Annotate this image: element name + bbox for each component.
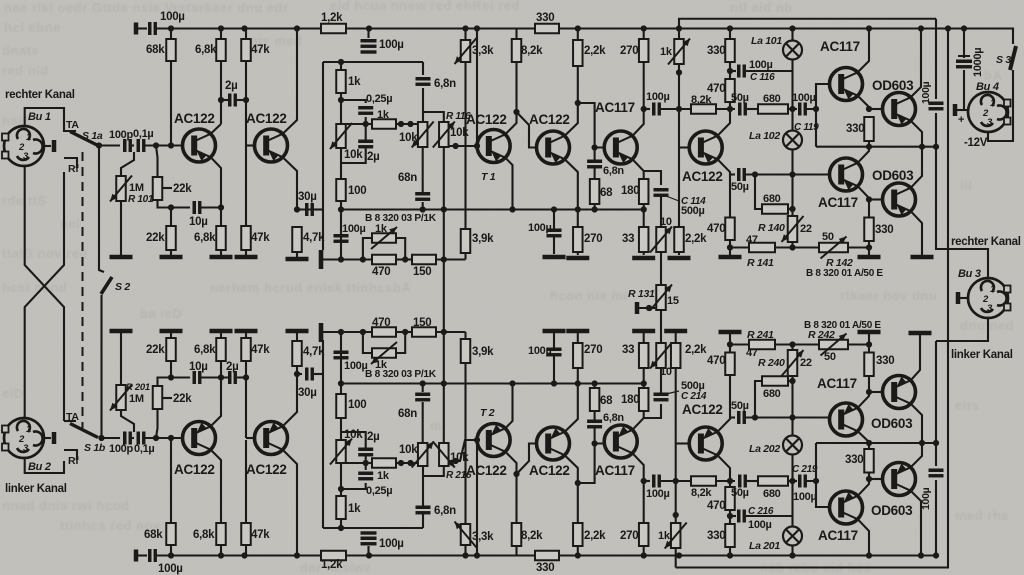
wire bbox=[245, 250, 247, 255]
wire bbox=[340, 148, 342, 179]
resistor 470 b bbox=[725, 218, 735, 241]
wire bbox=[340, 463, 342, 496]
resistor 470 a bbox=[725, 79, 735, 102]
wire bbox=[660, 310, 662, 343]
wire bbox=[340, 418, 342, 440]
svg-text:1k: 1k bbox=[660, 46, 673, 58]
ground bbox=[664, 329, 687, 334]
wire bbox=[553, 237, 555, 254]
wire bbox=[716, 480, 735, 482]
wire bbox=[594, 409, 596, 420]
junction dot bbox=[789, 171, 795, 177]
svg-text:AC122: AC122 bbox=[174, 111, 215, 126]
svg-text:hcon nie mi: hcon nie mi bbox=[550, 288, 628, 303]
svg-text:100µ: 100µ bbox=[528, 345, 552, 357]
svg-text:50µ: 50µ bbox=[731, 400, 749, 412]
junction dots top bus bbox=[168, 25, 967, 31]
wire bbox=[423, 466, 444, 476]
potentiometer 10k bass b bbox=[330, 439, 352, 465]
transistor AC117 driver bbox=[604, 131, 637, 164]
svg-text:470: 470 bbox=[707, 500, 725, 512]
wire base bbox=[246, 144, 254, 146]
wire bbox=[815, 109, 817, 147]
transistor AC117 output4 bbox=[830, 491, 863, 524]
wire T1 emitter bbox=[505, 158, 512, 210]
potentiometer R 140 22 bbox=[782, 216, 804, 242]
wire e bbox=[858, 96, 869, 109]
svg-text:10k: 10k bbox=[344, 429, 363, 441]
wire bbox=[793, 246, 820, 248]
capacitor 6,8n bbox=[416, 79, 431, 85]
wire bbox=[121, 410, 134, 432]
wire bbox=[464, 29, 466, 41]
wire bbox=[341, 432, 366, 449]
svg-text:C 219: C 219 bbox=[792, 464, 818, 475]
junction dot bbox=[752, 414, 758, 420]
wire bbox=[314, 373, 323, 375]
wire bbox=[136, 27, 147, 29]
svg-text:med rhe: med rhe bbox=[955, 508, 1009, 523]
svg-text:3,9k: 3,9k bbox=[472, 346, 494, 358]
junction dot bbox=[727, 513, 733, 519]
wire bbox=[957, 70, 964, 110]
junction dot bbox=[866, 244, 872, 250]
wire bbox=[145, 144, 182, 146]
svg-text:2µ: 2µ bbox=[226, 361, 238, 373]
transistor AC117 driver b bbox=[604, 425, 637, 458]
wire bbox=[791, 60, 793, 131]
svg-text:6,8n: 6,8n bbox=[434, 505, 456, 517]
wire bbox=[340, 62, 342, 70]
wire S2 upper bbox=[99, 146, 104, 273]
ground bbox=[235, 329, 258, 334]
wire bbox=[868, 443, 870, 449]
junction dot bbox=[338, 329, 447, 335]
wire bbox=[340, 201, 342, 260]
wire emitter row bbox=[444, 208, 644, 210]
resistor 330 a b bbox=[725, 524, 735, 547]
wire bbox=[958, 297, 968, 299]
wire bbox=[716, 108, 735, 110]
wire bbox=[577, 368, 579, 384]
wire bbox=[443, 147, 445, 210]
wire bbox=[746, 173, 830, 175]
wire label tie bbox=[163, 397, 172, 399]
svg-text:680: 680 bbox=[763, 193, 781, 205]
svg-text:eid hcua nnew red ehRei red: eid hcua nnew red ehRei red bbox=[330, 0, 520, 13]
socket Bu 3 bbox=[968, 278, 1011, 318]
wire c bbox=[911, 491, 921, 556]
wire bbox=[145, 437, 182, 439]
transistor AC122 stage5 bbox=[689, 131, 722, 164]
resistor 8,2k bbox=[512, 39, 522, 62]
resistor 680 b2 bbox=[762, 376, 788, 386]
resistor 330 bus b bbox=[535, 551, 559, 561]
resistor 22k d bbox=[166, 338, 176, 361]
svg-text:1: 1 bbox=[990, 98, 995, 109]
svg-text:100µ: 100µ bbox=[342, 223, 366, 235]
potentiometer 1k P bbox=[371, 227, 397, 249]
svg-text:La 202: La 202 bbox=[749, 443, 780, 455]
wire bbox=[637, 307, 656, 309]
junction dot bbox=[338, 256, 447, 262]
wire bbox=[245, 361, 247, 438]
resistor 6,8k d bbox=[216, 338, 226, 361]
capacitor 100µ coupling bbox=[654, 103, 660, 116]
wire bbox=[245, 440, 247, 523]
capacitor 100µ emitter bbox=[547, 230, 562, 236]
svg-text:180: 180 bbox=[621, 394, 639, 406]
junction dot bbox=[168, 204, 174, 210]
wire bbox=[791, 546, 793, 556]
svg-text:22: 22 bbox=[800, 223, 812, 235]
wire crossover a bbox=[25, 166, 64, 421]
svg-text:C 214: C 214 bbox=[681, 391, 707, 402]
wire bbox=[220, 462, 222, 523]
svg-text:1,2k: 1,2k bbox=[321, 559, 343, 571]
wire c5 bbox=[717, 110, 730, 136]
capacitor 10µ bottom bbox=[194, 371, 200, 384]
wire emitter tap b bbox=[644, 404, 661, 418]
svg-text:180: 180 bbox=[621, 185, 639, 197]
wire bbox=[314, 208, 323, 210]
wire emitter tap bbox=[644, 171, 661, 185]
wire bbox=[170, 250, 172, 255]
resistor 8,2k bottom bbox=[512, 523, 522, 546]
transistor AC122 stage2 top bbox=[255, 129, 288, 162]
ground bbox=[668, 256, 691, 261]
wire bbox=[577, 546, 579, 556]
wire e bbox=[911, 211, 922, 255]
svg-text:linker Kanal: linker Kanal bbox=[5, 483, 67, 495]
svg-text:Bu 1: Bu 1 bbox=[28, 111, 51, 123]
wire 50µ2b row bbox=[730, 416, 735, 418]
svg-text:50µ: 50µ bbox=[731, 181, 749, 193]
svg-text:15: 15 bbox=[667, 295, 679, 307]
wire bbox=[868, 473, 870, 480]
wire bbox=[220, 361, 222, 378]
wire bbox=[660, 252, 662, 285]
svg-text:3,3k: 3,3k bbox=[472, 45, 494, 57]
junction dot bbox=[575, 100, 598, 151]
svg-text:330: 330 bbox=[875, 224, 893, 236]
wire bbox=[788, 480, 797, 482]
wire 680b drop bbox=[755, 175, 762, 210]
wire e4 bbox=[565, 159, 578, 209]
resistor 330 bus bbox=[535, 24, 559, 34]
wire bbox=[643, 29, 645, 40]
junction dot bbox=[98, 435, 104, 441]
wire bbox=[791, 150, 793, 210]
resistor 2,2k bus bbox=[573, 40, 583, 66]
wire bbox=[807, 84, 830, 109]
wire TA contact b bbox=[64, 420, 76, 422]
svg-text:0,1µ: 0,1µ bbox=[134, 443, 154, 455]
ground bbox=[858, 255, 881, 260]
wire output col top bbox=[935, 19, 937, 99]
capacitor 100µ out top bbox=[929, 103, 944, 109]
capacitor 100µ input bottom bbox=[150, 549, 156, 562]
capacitor 100p bottom bbox=[125, 432, 131, 445]
svg-text:R 241: R 241 bbox=[747, 329, 774, 341]
svg-text:680: 680 bbox=[763, 93, 781, 105]
wire label tie bbox=[163, 187, 172, 189]
svg-text:1M: 1M bbox=[129, 182, 144, 194]
svg-text:10k: 10k bbox=[399, 444, 418, 456]
wire tone mid wire b bbox=[341, 382, 444, 384]
wire bbox=[594, 168, 596, 179]
wire bbox=[643, 333, 645, 343]
svg-text:330: 330 bbox=[876, 355, 894, 367]
junction dot bbox=[338, 206, 344, 212]
resistor 270 emitter b bbox=[573, 343, 583, 368]
wire e bbox=[858, 479, 869, 496]
junction dot bbox=[420, 206, 447, 212]
svg-text:AC117: AC117 bbox=[818, 195, 858, 210]
resistor 330 a bbox=[725, 39, 735, 62]
resistor 47 R241 bbox=[749, 340, 775, 350]
wire S3 feed bbox=[1007, 29, 1013, 45]
wire bbox=[729, 29, 731, 40]
capacitor 2µ bbox=[230, 94, 236, 107]
svg-text:eits: eits bbox=[955, 398, 979, 413]
svg-text:33: 33 bbox=[622, 233, 634, 245]
svg-text:6,8k: 6,8k bbox=[194, 344, 216, 356]
svg-text:1: 1 bbox=[26, 132, 31, 143]
junction dot bbox=[453, 437, 481, 464]
svg-text:8,2k: 8,2k bbox=[691, 94, 712, 106]
wire bbox=[221, 99, 228, 101]
svg-text:47: 47 bbox=[746, 347, 758, 359]
ground bbox=[911, 255, 934, 260]
resistor 180 b bbox=[639, 388, 649, 411]
junction dot bbox=[641, 478, 734, 484]
socket Bu 4 bbox=[968, 92, 1011, 132]
junction dot bbox=[789, 378, 795, 384]
svg-text:330: 330 bbox=[536, 562, 554, 574]
svg-text:100p: 100p bbox=[109, 129, 133, 141]
svg-text:47: 47 bbox=[746, 234, 758, 246]
wire bbox=[791, 455, 793, 527]
junction dot bbox=[646, 305, 652, 311]
capacitor 0,25µ bbox=[358, 108, 373, 114]
svg-text:470: 470 bbox=[372, 317, 390, 329]
svg-text:La 201: La 201 bbox=[749, 540, 780, 552]
junction dot bbox=[575, 440, 598, 486]
resistor 3,9k bottom bbox=[461, 339, 471, 363]
wire bbox=[464, 332, 466, 339]
svg-text:-12V: -12V bbox=[964, 137, 988, 149]
capacitor C114 500µ bbox=[654, 190, 669, 196]
terminal R131 wiper bbox=[635, 302, 640, 314]
wire bbox=[170, 545, 172, 556]
svg-text:10k: 10k bbox=[399, 132, 418, 144]
wire bbox=[775, 343, 793, 345]
svg-text:10k: 10k bbox=[344, 149, 363, 161]
potentiometer R 101 1M bbox=[110, 176, 132, 202]
wire TA loop bbox=[25, 108, 76, 131]
wire top supply bus bbox=[156, 27, 1007, 29]
wire 680b2 rise bbox=[755, 381, 762, 418]
junction dot bbox=[218, 97, 249, 103]
resistor 680 a b bbox=[758, 476, 788, 486]
svg-text:100µ: 100µ bbox=[379, 39, 404, 51]
wire loop bbox=[396, 238, 405, 260]
wire bbox=[791, 381, 793, 436]
svg-text:red nid: red nid bbox=[2, 63, 49, 78]
resistor 330 c bbox=[864, 218, 874, 242]
resistor 470 b2 bbox=[725, 353, 735, 376]
wire bbox=[422, 202, 424, 210]
svg-text:470: 470 bbox=[707, 355, 725, 367]
junction dot bbox=[398, 121, 414, 127]
svg-text:TA: TA bbox=[66, 119, 79, 131]
svg-text:6,8k: 6,8k bbox=[195, 44, 217, 56]
ground bbox=[858, 330, 881, 335]
potentiometer R 142 50 bbox=[819, 237, 848, 259]
svg-text:68k: 68k bbox=[146, 44, 165, 56]
ground bbox=[543, 255, 566, 260]
svg-text:6,8n: 6,8n bbox=[603, 412, 624, 424]
svg-text:100µ: 100µ bbox=[646, 91, 670, 103]
wire bbox=[791, 209, 793, 216]
resistor 6,8k bbox=[216, 39, 226, 61]
potentiometer 10 b bbox=[650, 343, 672, 369]
wire bbox=[963, 29, 965, 59]
wire c4 to base5 bbox=[578, 103, 604, 148]
resistor 2,2k bias b bbox=[671, 343, 681, 368]
svg-text:100µ: 100µ bbox=[792, 92, 816, 104]
svg-text:La 101: La 101 bbox=[751, 35, 782, 47]
wire bbox=[170, 440, 172, 523]
wire mid row bbox=[341, 123, 372, 125]
capacitor plate bbox=[361, 531, 377, 534]
resistor 1,2k bottom bbox=[321, 551, 346, 561]
wire bbox=[422, 62, 424, 75]
svg-text:B 8 320 01 A/50 E: B 8 320 01 A/50 E bbox=[806, 268, 883, 279]
svg-text:2µ: 2µ bbox=[367, 151, 379, 163]
svg-text:270: 270 bbox=[584, 344, 602, 356]
resistor 22k b bbox=[166, 226, 176, 250]
resistor 68 bbox=[590, 179, 600, 204]
wire e bbox=[858, 392, 869, 408]
capacitor 100µ out bottom bbox=[929, 470, 944, 476]
wire bbox=[436, 258, 466, 260]
wire S3 down bbox=[988, 70, 1013, 141]
svg-text:6,8n: 6,8n bbox=[434, 78, 456, 90]
transistor AC122 T1 bbox=[477, 130, 510, 163]
capacitor 50µ a bbox=[740, 103, 746, 116]
wire TA loop b bbox=[25, 459, 64, 473]
svg-text:100µ: 100µ bbox=[793, 491, 817, 503]
wire bbox=[729, 481, 731, 524]
wire bbox=[45, 145, 51, 147]
svg-text:rtkaer nov dnu: rtkaer nov dnu bbox=[840, 288, 937, 303]
svg-text:B 8 320 01 A/50 E: B 8 320 01 A/50 E bbox=[804, 320, 881, 331]
resistor 330 b b bbox=[864, 353, 874, 377]
wire tone link column bbox=[443, 210, 445, 444]
lamp La 102 bbox=[783, 131, 802, 150]
transistor AC122 T2 bbox=[477, 424, 510, 457]
wire bbox=[747, 480, 758, 482]
transistor AC122 stage1 top bbox=[183, 129, 216, 162]
capacitor plate bbox=[361, 50, 377, 53]
svg-text:1k: 1k bbox=[375, 359, 388, 371]
svg-text:100µ: 100µ bbox=[160, 11, 185, 23]
wire bbox=[237, 99, 246, 101]
capacitor 30µ bottom bbox=[307, 368, 313, 381]
potentiometer R 201 1M bbox=[110, 385, 132, 411]
svg-text:50µ: 50µ bbox=[731, 487, 749, 499]
resistor 470 bottom bbox=[372, 327, 396, 337]
wire bbox=[365, 117, 367, 124]
capacitor 6,8n stage b bbox=[587, 421, 602, 427]
svg-text:330: 330 bbox=[845, 454, 863, 466]
capacitor 100µ emitter b bbox=[547, 349, 562, 355]
wire bbox=[136, 554, 147, 556]
potentiometer 1k driver bbox=[668, 39, 690, 65]
svg-text:AC122: AC122 bbox=[529, 463, 570, 478]
svg-text:100µ: 100µ bbox=[158, 563, 183, 575]
transistor AC117 output2 bbox=[830, 158, 863, 191]
resistor 2,2k bias bbox=[674, 227, 684, 252]
resistor 470 bbox=[372, 255, 396, 265]
wire collector bbox=[211, 378, 221, 427]
wire bbox=[245, 29, 247, 40]
wire tone ground rail bbox=[321, 258, 372, 260]
svg-text:3: 3 bbox=[987, 303, 993, 314]
wire bbox=[848, 343, 869, 345]
wire bottom supply bus bbox=[156, 554, 936, 556]
svg-text:R 131: R 131 bbox=[628, 288, 655, 300]
resistor 6,8k bottom bbox=[216, 523, 226, 545]
svg-text:1k: 1k bbox=[658, 530, 671, 542]
capacitor 100µ rail bottom bbox=[361, 538, 377, 544]
svg-text:47k: 47k bbox=[251, 232, 270, 244]
wire c5b bbox=[717, 455, 730, 481]
svg-text:8,2k: 8,2k bbox=[521, 530, 543, 542]
svg-text:1k: 1k bbox=[348, 76, 361, 88]
resistor 68k bbox=[166, 39, 176, 61]
wire e4b bbox=[565, 384, 578, 432]
wire e AC117b bbox=[632, 409, 643, 430]
wire bbox=[158, 378, 191, 387]
transistor AC117 output1 bbox=[830, 68, 863, 101]
resistor 47k bbox=[241, 39, 251, 61]
capacitor 1000µ bbox=[956, 61, 972, 67]
junction dot bbox=[218, 204, 224, 210]
wire bbox=[868, 376, 870, 392]
junction dot bbox=[513, 471, 519, 477]
wire bbox=[436, 331, 466, 333]
potentiometer R 216 10k bbox=[433, 442, 455, 468]
wire bbox=[367, 546, 369, 556]
svg-text:AC122: AC122 bbox=[682, 169, 723, 184]
ground bbox=[719, 255, 742, 260]
svg-text:nnad dnis rwi hcod: nnad dnis rwi hcod bbox=[2, 498, 129, 513]
wire bbox=[365, 463, 367, 470]
transistor AC122 stage2 bottom bbox=[255, 422, 288, 455]
socket Bu 2 bbox=[2, 418, 44, 458]
wire bbox=[245, 545, 247, 556]
wire pot to T2 bbox=[449, 440, 477, 461]
svg-text:3,9k: 3,9k bbox=[472, 233, 494, 245]
wire mid rail bbox=[816, 146, 936, 148]
wire bbox=[245, 146, 247, 227]
wire bbox=[660, 196, 662, 227]
svg-text:22k: 22k bbox=[146, 344, 165, 356]
transistor AC117 output3 bbox=[830, 403, 863, 436]
